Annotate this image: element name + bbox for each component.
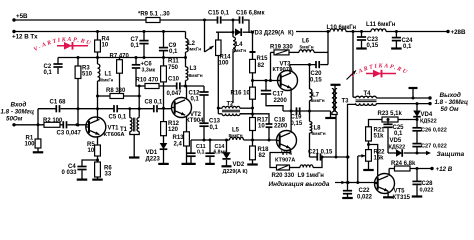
- svg-text:0,022: 0,022: [420, 188, 434, 194]
- svg-text:VD3 Д229(А: VD3 Д229(А: [251, 31, 286, 37]
- svg-text:82: 82: [258, 63, 265, 69]
- wire +12V rail: [14, 31, 186, 33]
- wire output bottom: [377, 103, 431, 105]
- svg-text:Д223: Д223: [146, 157, 161, 163]
- svg-text:R10 470: R10 470: [136, 78, 159, 84]
- svg-text:Индикация выхода: Индикация выхода: [269, 180, 330, 188]
- svg-text:C10: C10: [168, 77, 180, 83]
- ground C22: [342, 197, 353, 199]
- resistor R15: [252, 52, 254, 59]
- svg-text:C20: C20: [311, 71, 323, 77]
- svg-text:К): К): [288, 31, 294, 37]
- svg-text:C15 0,1: C15 0,1: [208, 11, 230, 17]
- svg-text:L5: L5: [232, 128, 240, 134]
- capacitor C15: [217, 16, 219, 23]
- svg-text:10: 10: [102, 43, 109, 49]
- transistor VT5: [375, 174, 395, 194]
- svg-text:120: 120: [168, 127, 179, 133]
- svg-text:VT5: VT5: [394, 189, 406, 195]
- inductor L8: [310, 122, 312, 134]
- wire node column x139: [138, 86, 140, 118]
- inductor L6: [289, 51, 299, 53]
- svg-text:R23 5,1k: R23 5,1k: [378, 111, 403, 117]
- inductor L5: [191, 139, 230, 141]
- resistor R17: [250, 118, 256, 131]
- capacitor C2: [57, 58, 59, 65]
- resistor R16: [250, 87, 256, 99]
- svg-text:51k: 51k: [374, 134, 385, 140]
- svg-text:L4: L4: [236, 42, 244, 48]
- resistor R21: [366, 127, 372, 141]
- capacitor C22: [343, 190, 352, 192]
- svg-text:0,1: 0,1: [403, 44, 412, 50]
- inductor L4: [233, 37, 235, 52]
- capacitor C17: [265, 81, 267, 91]
- ground C4: [77, 179, 88, 181]
- inductor L9: [300, 165, 313, 168]
- resistor R18: [250, 146, 256, 160]
- svg-text:0,15: 0,15: [310, 78, 322, 84]
- resistor R2: [44, 122, 60, 127]
- capacitor C27: [412, 143, 421, 145]
- capacitor C9: [162, 30, 165, 33]
- diode VD2: [226, 140, 228, 152]
- svg-text:C3 0,047: C3 0,047: [57, 131, 82, 137]
- wire vertical input branch: [37, 109, 39, 139]
- ground C14: [205, 163, 215, 165]
- svg-text:2200: 2200: [274, 98, 288, 104]
- svg-text:VD4: VD4: [421, 112, 433, 118]
- watermark left: [33, 37, 100, 53]
- wire indication line: [348, 182, 378, 184]
- wire to Zashchita: [417, 152, 428, 154]
- svg-text:100: 100: [25, 142, 36, 148]
- svg-text:*R9 5.1 ..30: *R9 5.1 ..30: [138, 12, 170, 18]
- resistor R3: [77, 58, 79, 67]
- svg-text:R2 100: R2 100: [43, 118, 63, 124]
- svg-text:R20 330: R20 330: [272, 173, 295, 179]
- svg-text:6мкГн: 6мкГн: [311, 98, 325, 104]
- capacitor C4: [82, 160, 98, 167]
- svg-text:C13: C13: [209, 119, 221, 125]
- inductor L10: [330, 29, 346, 32]
- wire collector line H5: [78, 108, 114, 110]
- svg-text:L2: L2: [188, 41, 196, 47]
- ground R18: [247, 163, 258, 165]
- diode VD4: [416, 104, 418, 111]
- transistor VT3: [278, 71, 298, 91]
- svg-text:750: 750: [168, 65, 179, 71]
- wire C15-C16 junction: [222, 19, 239, 21]
- capacitor C19: [296, 107, 298, 114]
- capacitor C24: [395, 32, 397, 38]
- capacitor C7: [143, 30, 146, 33]
- resistor R22 variable: [366, 150, 372, 162]
- svg-text:VD1: VD1: [146, 150, 158, 156]
- capacitor C6 electrolytic: [135, 58, 137, 65]
- svg-text:0,15: 0,15: [367, 43, 379, 49]
- ground VD1: [158, 163, 169, 165]
- svg-text:0,1: 0,1: [131, 43, 140, 49]
- svg-text:8мкГн: 8мкГн: [189, 73, 203, 79]
- svg-text:C21 0,15: C21 0,15: [308, 150, 333, 156]
- svg-text:0,047: 0,047: [167, 91, 183, 97]
- wire R15 bias column: [251, 31, 254, 34]
- capacitor C26: [412, 127, 421, 129]
- svg-text:1.8 - 30Мгц: 1.8 - 30Мгц: [1, 109, 34, 116]
- svg-text:15k: 15k: [374, 156, 385, 162]
- svg-text:0,1: 0,1: [197, 150, 205, 156]
- svg-text:10: 10: [258, 124, 265, 130]
- svg-text:0,1: 0,1: [44, 70, 53, 76]
- node +28V terminal: [446, 30, 449, 33]
- svg-text:2200: 2200: [274, 124, 288, 130]
- diode VD1: [163, 136, 165, 143]
- svg-text:3,3мк: 3,3мк: [142, 68, 156, 74]
- svg-text:0,1: 0,1: [191, 97, 200, 103]
- capacitor C18: [240, 114, 269, 124]
- wire +28V drop to T4: [352, 32, 354, 98]
- wire bias rail: [58, 57, 186, 59]
- wire R9 to C15: [160, 19, 217, 21]
- svg-text:L7: L7: [312, 93, 320, 99]
- svg-text:C17: C17: [273, 92, 285, 98]
- node +12V Tx terminal: [12, 30, 15, 33]
- resistor R7: [119, 58, 121, 60]
- resistor R23: [398, 119, 417, 121]
- diode VD5: [396, 149, 402, 157]
- svg-text:C16 6,8мк: C16 6,8мк: [236, 11, 264, 17]
- svg-text:0 033: 0 033: [62, 170, 78, 176]
- capacitor C3: [62, 121, 64, 128]
- capacitor C12: [203, 86, 205, 92]
- capacitor C14: [209, 140, 211, 153]
- svg-text:L8: L8: [314, 126, 322, 132]
- svg-text:+12 В: +12 В: [436, 166, 453, 173]
- svg-text:L9 1мкГн: L9 1мкГн: [298, 173, 325, 179]
- wire input line: [12, 123, 15, 126]
- svg-text:0,022: 0,022: [357, 195, 373, 201]
- capacitor C16: [239, 16, 241, 23]
- svg-text:L10 6мкГн: L10 6мкГн: [327, 25, 357, 31]
- wire T4 bottom to C22: [347, 157, 349, 191]
- svg-text:0,15: 0,15: [291, 121, 303, 127]
- ground R22: [363, 169, 374, 171]
- transformer T3: [332, 89, 334, 113]
- ground bar above output: [412, 89, 414, 99]
- svg-text:C1 68: C1 68: [50, 100, 67, 106]
- capacitor C20: [315, 61, 317, 68]
- wire +5V rail: [14, 19, 146, 21]
- svg-text:50Ом: 50Ом: [6, 116, 23, 123]
- svg-text:R19 330: R19 330: [270, 45, 293, 51]
- svg-text:L3: L3: [190, 66, 198, 72]
- svg-text:Защита: Защита: [437, 151, 465, 158]
- svg-text:L6: L6: [302, 39, 310, 45]
- capacitor C5: [113, 105, 115, 112]
- svg-text:КТ315: КТ315: [393, 195, 411, 201]
- wire emitter node line: [283, 110, 331, 112]
- inductor L3: [185, 58, 187, 67]
- wire VT4 collector: [290, 111, 292, 133]
- transistor VT1: [86, 117, 106, 137]
- capacitor C13: [199, 122, 208, 124]
- svg-text:2,4: 2,4: [174, 142, 183, 148]
- svg-text:КД522: КД522: [420, 119, 437, 125]
- wire T3 bottom: [332, 112, 337, 115]
- watermark right: [350, 63, 409, 79]
- ground R13: [182, 163, 192, 165]
- svg-text:R11: R11: [168, 59, 179, 65]
- svg-text:+28В: +28В: [451, 29, 466, 36]
- inductor L2: [185, 32, 187, 39]
- arrow tuning T3-T4: [347, 71, 357, 80]
- capacitor C10: [176, 82, 178, 89]
- wire top rail to +28V: [296, 31, 330, 33]
- svg-text:0,1: 0,1: [394, 131, 403, 137]
- svg-text:C27 0,022: C27 0,022: [421, 144, 447, 150]
- svg-text:6мкГн: 6мкГн: [312, 131, 326, 137]
- inductor L11: [362, 31, 372, 33]
- transformer T1: [131, 108, 154, 110]
- svg-text:T1: T1: [120, 127, 128, 133]
- svg-text:C5 0,1: C5 0,1: [109, 115, 127, 121]
- wire C16 right bend down: [244, 20, 249, 33]
- svg-text:C26 0,022: C26 0,022: [421, 128, 447, 134]
- resistor R20: [277, 165, 290, 170]
- svg-text:50 Ом: 50 Ом: [441, 106, 459, 113]
- svg-text:+12 В Tx: +12 В Tx: [12, 34, 38, 41]
- resistor R1: [35, 139, 41, 148]
- resistor R4: [96, 30, 99, 33]
- svg-text:0,1: 0,1: [169, 49, 178, 55]
- resistor R24: [389, 168, 394, 170]
- ground C11: [186, 163, 196, 165]
- svg-text:+5В: +5В: [16, 13, 28, 20]
- inductor L7: [309, 101, 311, 112]
- wire VT3 collector: [289, 65, 291, 73]
- svg-text:10: 10: [88, 148, 95, 154]
- resistor R11: [163, 58, 165, 66]
- wire R21/R22 junction to VT5 base: [369, 145, 378, 178]
- transistor VT2: [172, 98, 192, 118]
- svg-text:Вход: Вход: [11, 101, 27, 109]
- resistor R6: [95, 162, 101, 177]
- wire VT4 emitter to R20: [270, 148, 290, 167]
- wire VT5 collector: [388, 169, 390, 176]
- resistor R13: [186, 116, 188, 132]
- svg-text:100: 100: [219, 61, 230, 67]
- svg-text:8мкГн: 8мкГн: [187, 47, 201, 53]
- resistor R14 variable: [204, 20, 206, 52]
- capacitor C11: [190, 140, 192, 153]
- ground C23: [356, 47, 367, 49]
- svg-text:VT1: VT1: [108, 126, 120, 132]
- capacitor C23: [361, 32, 363, 38]
- svg-text:R7 470: R7 470: [110, 54, 130, 60]
- wire R19 left to base: [270, 52, 272, 80]
- capacitor C1: [38, 108, 56, 110]
- capacitor C21: [310, 156, 318, 158]
- resistor R9: [146, 18, 160, 23]
- svg-text:VD5: VD5: [390, 138, 402, 144]
- ground R1: [33, 151, 44, 153]
- svg-text:C22: C22: [359, 188, 371, 194]
- svg-text:L11 6мкГн: L11 6мкГн: [366, 22, 396, 28]
- svg-text:8мкГн: 8мкГн: [232, 48, 246, 54]
- capacitor C28: [416, 169, 418, 182]
- svg-text:30мкГн: 30мкГн: [99, 78, 114, 83]
- svg-text:0,1: 0,1: [210, 125, 219, 131]
- ground C24: [391, 47, 402, 49]
- resistor R5: [97, 136, 99, 145]
- capacitor C19b path - C21 line: [309, 133, 311, 157]
- svg-text:R13: R13: [173, 135, 185, 141]
- svg-text:VD2: VD2: [233, 162, 245, 168]
- ground C28: [412, 195, 423, 197]
- svg-text:Выход: Выход: [440, 91, 461, 99]
- resistor R19 variable: [271, 51, 275, 53]
- wire VT3 emitter: [290, 88, 292, 111]
- svg-text:C8 0,1: C8 0,1: [145, 100, 163, 106]
- svg-text:33: 33: [105, 172, 112, 178]
- inductor L1: [97, 58, 99, 65]
- wire VT3 base line: [253, 80, 281, 82]
- ground VD2: [222, 165, 232, 167]
- svg-text:5мкГн: 5мкГн: [300, 45, 314, 51]
- resistor R12: [161, 122, 167, 136]
- transistor VT4: [277, 131, 297, 151]
- svg-text:Т3: Т3: [342, 99, 350, 105]
- svg-text:1.8 - 30Мгц: 1.8 - 30Мгц: [435, 99, 468, 106]
- svg-text:R16 10: R16 10: [231, 91, 251, 97]
- wire R10-C10 node line: [139, 85, 145, 87]
- resistor R8 feedback: [96, 95, 99, 98]
- svg-text:R24 6,8k: R24 6,8k: [391, 161, 416, 167]
- diode VD3: [235, 28, 241, 36]
- resistor R10: [145, 84, 159, 89]
- wire VT2 collector: [186, 86, 188, 100]
- wire VT5 emitter ground: [387, 191, 389, 197]
- svg-text:8мкГн: 8мкГн: [229, 133, 243, 139]
- svg-text:82: 82: [259, 153, 266, 159]
- svg-text:Д229(А К): Д229(А К): [223, 169, 248, 175]
- ground T1: [129, 156, 140, 158]
- svg-text:R15: R15: [257, 56, 269, 62]
- wire L6 to C20 and rail: [327, 32, 329, 65]
- ground R6: [92, 179, 103, 181]
- svg-text:C28: C28: [422, 181, 434, 187]
- node +5V terminal: [12, 18, 15, 21]
- svg-text:R8 330: R8 330: [106, 88, 126, 94]
- svg-text:КД522: КД522: [389, 145, 406, 151]
- capacitor C25: [387, 120, 389, 125]
- wire output top: [377, 97, 431, 99]
- svg-text:510: 510: [82, 72, 93, 78]
- ground mid: [330, 111, 332, 118]
- svg-text:C19: C19: [291, 115, 303, 121]
- wire L4/VD3 node: [232, 20, 234, 37]
- svg-text:КТ907А: КТ907А: [275, 158, 295, 164]
- ground bar above T3: [334, 85, 336, 88]
- capacitor C8: [153, 105, 155, 112]
